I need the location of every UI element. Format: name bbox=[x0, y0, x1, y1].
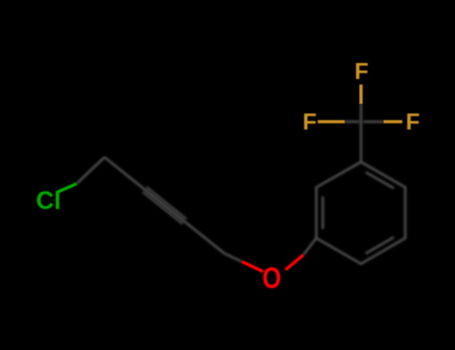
aromatic inner line bottom-right bbox=[366, 237, 394, 254]
benzene ring bbox=[316, 162, 405, 264]
bond C4-O gray half bbox=[225, 254, 243, 262]
bond C4-O red half bbox=[242, 262, 263, 272]
triple bond C2-C3 lower parallel bbox=[143, 192, 183, 224]
svg-text:F: F bbox=[406, 108, 420, 134]
bond O-ring gray half bbox=[304, 238, 317, 255]
bond C-Fleft orange half bbox=[318, 120, 345, 123]
bond C-Fleft gray half bbox=[345, 120, 359, 123]
bond Cl-C1 green half bbox=[57, 184, 76, 192]
triple bond C2-C3 center line bbox=[145, 189, 185, 221]
svg-text:F: F bbox=[303, 108, 317, 134]
bond C-Fright orange half bbox=[384, 120, 403, 123]
aromatic inner line top-right bbox=[366, 172, 394, 188]
bond C-Fright gray half bbox=[364, 120, 384, 123]
svg-text:F: F bbox=[355, 58, 369, 84]
bond C3-C4 bbox=[185, 222, 225, 254]
svg-text:O: O bbox=[262, 262, 281, 295]
bond C-Ftop orange half bbox=[359, 85, 362, 105]
bond Cl-C1 gray half bbox=[77, 157, 105, 184]
aromatic inner line left bbox=[322, 196, 325, 229]
bond C-Ftop gray half bbox=[360, 104, 363, 122]
bond O-ring red half bbox=[286, 255, 304, 270]
bond C1-C2 bbox=[105, 157, 145, 189]
bond ring-CF3 stem bbox=[360, 122, 363, 162]
triple bond C2-C3 upper parallel bbox=[147, 187, 187, 219]
